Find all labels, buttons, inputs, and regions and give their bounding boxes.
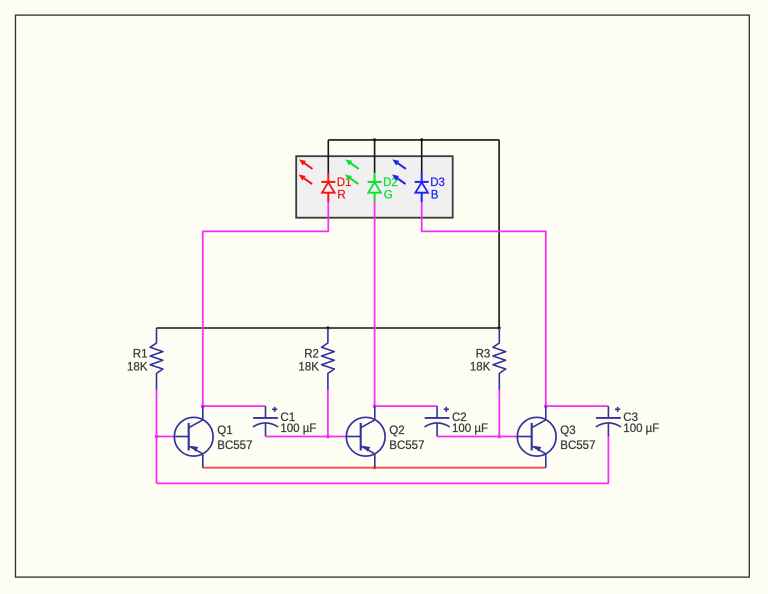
LED display box <box>296 156 453 218</box>
resistor R3 18K <box>470 328 506 390</box>
junction: D3 on bus <box>420 138 423 141</box>
wire: D1 cathode up to bus <box>327 140 329 173</box>
svg-text:100 µF: 100 µF <box>280 423 316 435</box>
resistor R2 18K <box>298 328 334 390</box>
svg-text:C2: C2 <box>452 412 467 424</box>
wire: Q3 collector to C3 plus <box>546 405 609 407</box>
wire: base bias rail <box>157 327 500 329</box>
junction: R2 on bias rail <box>326 326 329 329</box>
wire: D2 cathode up to bus <box>374 140 376 173</box>
svg-text:C3: C3 <box>623 412 638 424</box>
wire: D3 anode to Q3 collector <box>422 202 546 406</box>
svg-text:BC557: BC557 <box>217 440 252 452</box>
svg-text:18K: 18K <box>127 361 148 373</box>
wire: C1 minus to Q2 base <box>266 436 347 438</box>
junction: Q3 base node <box>497 435 501 439</box>
svg-text:100 µF: 100 µF <box>452 423 488 435</box>
junction: Q1 collector node <box>201 404 205 408</box>
svg-text:Q1: Q1 <box>217 425 232 437</box>
capacitor C2 100uF <box>425 406 489 436</box>
svg-text:R3: R3 <box>476 348 491 360</box>
svg-text:C1: C1 <box>280 412 295 424</box>
capacitor C1 100uF <box>253 406 317 436</box>
transistor Q3 BC557 <box>517 406 595 468</box>
wire: D2 anode to Q2 collector <box>374 202 376 406</box>
wire: LED cathode bus <box>328 139 499 141</box>
wire: R3 bottom to Q3 base node <box>498 389 500 437</box>
wire: bus down right side to bias rail <box>498 140 500 328</box>
junction: Q3 collector node <box>544 404 548 408</box>
svg-text:Q3: Q3 <box>560 425 575 437</box>
svg-text:18K: 18K <box>470 361 491 373</box>
wire: C2 minus to Q3 base <box>437 436 517 438</box>
junction: Q2 base node <box>326 435 330 439</box>
LED D2 green <box>345 159 398 202</box>
transistor Q1 BC557 <box>174 406 252 468</box>
svg-text:18K: 18K <box>298 361 319 373</box>
wire: D3 cathode up to bus <box>421 140 423 173</box>
junction: R3 top on bias rail <box>498 326 501 329</box>
junction: Q2 emitter on rail <box>373 466 376 469</box>
svg-text:G: G <box>384 190 393 202</box>
svg-text:BC557: BC557 <box>560 440 595 452</box>
svg-text:Q2: Q2 <box>389 425 404 437</box>
capacitor C3 100uF <box>596 406 660 436</box>
svg-text:D3: D3 <box>430 177 445 189</box>
svg-text:R1: R1 <box>133 348 148 360</box>
wire: Q1 base lead <box>157 436 175 438</box>
resistor R1 18K <box>127 328 163 390</box>
svg-text:100 µF: 100 µF <box>623 423 659 435</box>
svg-text:R2: R2 <box>304 348 319 360</box>
wire: Q1 collector to C1 plus <box>203 405 266 407</box>
svg-text:BC557: BC557 <box>389 440 424 452</box>
wire: D1 anode to Q1 collector <box>203 202 328 406</box>
junction: Q2 collector node <box>373 404 377 408</box>
junction: D2 on bus <box>373 138 376 141</box>
LED D3 blue <box>392 159 445 202</box>
svg-text:B: B <box>431 190 439 202</box>
wire: R1 bottom down to feedback rail <box>156 389 158 483</box>
wire: R2 bottom to Q2 base node <box>327 389 329 437</box>
junction: Q1 base node <box>155 435 159 439</box>
svg-text:R: R <box>337 190 345 202</box>
LED D1 red <box>299 159 352 202</box>
wire: Q2 collector to C2 plus <box>375 405 438 407</box>
wire: bottom feedback rail C3 to Q1 base <box>157 434 609 483</box>
wire: emitter rail <box>203 467 546 469</box>
transistor Q2 BC557 <box>346 406 424 468</box>
